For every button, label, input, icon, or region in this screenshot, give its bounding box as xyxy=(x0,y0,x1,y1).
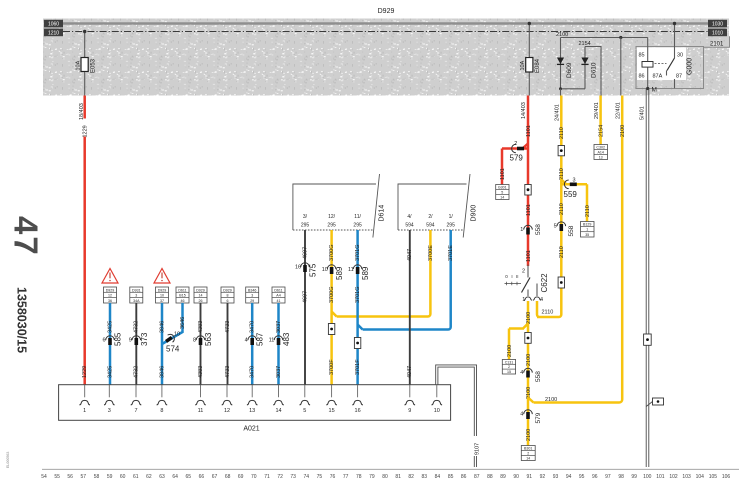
A021 pin 9 xyxy=(409,385,411,398)
svg-text:B15: B15 xyxy=(179,294,185,298)
svg-text:3700G: 3700G xyxy=(329,244,335,261)
svg-text:E053: E053 xyxy=(91,58,97,73)
svg-text:24/401: 24/401 xyxy=(555,104,561,121)
svg-text:A021: A021 xyxy=(243,426,259,433)
svg-text:574: 574 xyxy=(166,345,180,354)
svg-text:103: 103 xyxy=(682,474,691,480)
net tag 1010 right xyxy=(708,29,727,37)
diode D609 xyxy=(560,38,562,89)
svg-text:87: 87 xyxy=(474,474,480,480)
svg-text:II: II xyxy=(516,274,519,279)
wire 3037 xyxy=(277,303,280,385)
svg-text:10: 10 xyxy=(174,332,180,338)
svg-text:3701G: 3701G xyxy=(355,244,361,261)
svg-text:94: 94 xyxy=(566,474,572,480)
svg-text:76: 76 xyxy=(330,474,336,480)
svg-text:86: 86 xyxy=(639,74,645,80)
svg-text:2100: 2100 xyxy=(526,429,532,441)
svg-text:14: 14 xyxy=(500,196,504,200)
svg-text:4732: 4732 xyxy=(134,321,140,333)
svg-text:63: 63 xyxy=(159,474,165,480)
svg-text:15: 15 xyxy=(507,370,511,374)
terminal box G301/5/14 xyxy=(496,185,509,200)
svg-text:483: 483 xyxy=(282,332,291,346)
svg-text:99: 99 xyxy=(631,474,637,480)
svg-text:4047: 4047 xyxy=(407,366,413,378)
A021 pin 10 xyxy=(436,385,438,398)
net tag 1210 left xyxy=(44,29,63,37)
svg-text:2110: 2110 xyxy=(559,127,565,139)
svg-text:71: 71 xyxy=(264,474,270,480)
svg-text:8: 8 xyxy=(193,337,196,343)
svg-text:2101: 2101 xyxy=(710,42,724,48)
svg-text:4383: 4383 xyxy=(198,366,204,378)
svg-text:I: I xyxy=(511,274,512,279)
wire 14/403 net 1101 xyxy=(527,96,530,267)
A021 pin 14 xyxy=(278,385,280,398)
svg-text:87: 87 xyxy=(676,74,682,80)
svg-text:2110: 2110 xyxy=(559,168,565,180)
svg-text:60: 60 xyxy=(120,474,126,480)
svg-text:558: 558 xyxy=(535,371,542,382)
svg-text:62: 62 xyxy=(146,474,152,480)
branch 2100 from right xyxy=(528,398,622,403)
connector 579 pin 2 xyxy=(512,144,516,153)
wire 22/401 inside band xyxy=(620,38,622,96)
svg-text:558: 558 xyxy=(568,225,575,236)
svg-text:34A: 34A xyxy=(133,299,140,303)
svg-text:4697: 4697 xyxy=(302,247,308,259)
junction on bus 1030 xyxy=(528,22,531,25)
svg-text:558: 558 xyxy=(535,224,542,235)
terminal box B129/1/35 xyxy=(581,222,595,238)
svg-text:4732: 4732 xyxy=(134,366,140,378)
svg-text:14: 14 xyxy=(526,457,530,461)
svg-text:37: 37 xyxy=(160,299,164,303)
net 2154 line in band xyxy=(585,47,601,96)
source box D929/8/6 xyxy=(221,287,234,303)
fuse E053 xyxy=(81,58,88,72)
A021 pin 12 xyxy=(226,385,228,398)
svg-text:73: 73 xyxy=(290,474,296,480)
svg-text:3700E: 3700E xyxy=(428,245,434,261)
svg-text:9: 9 xyxy=(129,337,132,343)
svg-text:4: 4 xyxy=(520,370,523,376)
svg-text:15: 15 xyxy=(329,408,335,414)
svg-text:2100: 2100 xyxy=(507,345,513,357)
svg-text:66: 66 xyxy=(199,474,205,480)
connector 579 pin 4 (yellow) xyxy=(524,410,533,414)
svg-text:4/: 4/ xyxy=(407,214,412,220)
svg-text:64: 64 xyxy=(172,474,178,480)
terminal box C131/2/15 xyxy=(502,360,515,375)
svg-text:2100: 2100 xyxy=(620,125,626,137)
wire 3700G / 3700F xyxy=(332,230,431,385)
svg-text:91: 91 xyxy=(527,474,533,480)
svg-text:12: 12 xyxy=(224,408,230,414)
svg-text:563: 563 xyxy=(204,332,213,346)
svg-text:10A: 10A xyxy=(520,60,526,70)
svg-text:58: 58 xyxy=(94,474,100,480)
wire 4732 xyxy=(135,303,137,385)
svg-text:14: 14 xyxy=(199,294,203,298)
wire 4697 xyxy=(304,230,306,385)
net tag 1030 right xyxy=(708,20,727,28)
terminal box B301/2/14 xyxy=(521,446,535,461)
svg-text:10: 10 xyxy=(434,408,440,414)
A021 pin 15 xyxy=(331,385,333,398)
svg-text:3846: 3846 xyxy=(159,366,165,378)
svg-text:16: 16 xyxy=(355,408,361,414)
svg-text:11: 11 xyxy=(198,408,204,414)
source box D929/12/36 xyxy=(104,287,117,303)
svg-text:D929: D929 xyxy=(158,288,167,292)
screened wire 5/401 xyxy=(645,89,647,468)
branch to C131 xyxy=(509,324,528,360)
connector 558 pin 5 (yellow) xyxy=(557,222,566,226)
svg-text:2154: 2154 xyxy=(579,41,591,47)
svg-text:46: 46 xyxy=(181,299,185,303)
svg-text:85: 85 xyxy=(448,474,454,480)
svg-text:3/: 3/ xyxy=(303,214,308,220)
ground point M xyxy=(646,87,649,90)
bus bar 1010 (15-feed rail) xyxy=(63,31,708,33)
svg-text:84: 84 xyxy=(435,474,441,480)
fuse E053 feed wire xyxy=(84,32,86,96)
svg-text:559: 559 xyxy=(564,190,578,199)
svg-text:80: 80 xyxy=(382,474,388,480)
svg-text:18/403: 18/403 xyxy=(79,103,85,120)
svg-text:3700F: 3700F xyxy=(329,359,335,375)
svg-text:10A: 10A xyxy=(76,60,82,70)
svg-text:1101: 1101 xyxy=(526,204,532,216)
coordinate ruler xyxy=(42,468,739,470)
source box D611/B15/46 xyxy=(176,287,189,303)
bus bar 1030 (30-feed rail) xyxy=(63,22,708,24)
svg-text:6: 6 xyxy=(102,337,105,343)
diode D610 xyxy=(584,47,586,89)
splice on 3700F xyxy=(328,324,334,335)
svg-text:70: 70 xyxy=(251,474,257,480)
svg-text:594: 594 xyxy=(426,223,435,229)
svg-text:D931: D931 xyxy=(132,288,141,292)
svg-text:589: 589 xyxy=(335,266,344,280)
svg-text:13: 13 xyxy=(599,156,603,160)
svg-text:102: 102 xyxy=(669,474,678,480)
wire 4383 xyxy=(200,303,202,385)
svg-text:68: 68 xyxy=(225,474,231,480)
svg-text:1: 1 xyxy=(520,227,523,233)
svg-text:1229: 1229 xyxy=(82,125,88,137)
svg-text:3037: 3037 xyxy=(276,366,282,378)
svg-text:373: 373 xyxy=(140,332,149,346)
svg-text:97: 97 xyxy=(605,474,611,480)
junction on bus 1210 xyxy=(83,30,86,33)
svg-text:585: 585 xyxy=(114,332,123,346)
svg-text:2110: 2110 xyxy=(559,203,565,215)
svg-text:9: 9 xyxy=(408,408,411,414)
svg-text:3: 3 xyxy=(572,178,575,184)
net tag 1060 left xyxy=(44,20,63,28)
splice on 5/401 xyxy=(644,334,652,345)
relay pin 87A stub xyxy=(666,71,668,76)
wire 22/401 net 2100 xyxy=(621,96,624,400)
source box D929/10/37 xyxy=(156,287,169,303)
wire 4047 xyxy=(409,230,411,385)
svg-text:295: 295 xyxy=(327,223,336,229)
svg-text:54: 54 xyxy=(41,474,47,480)
svg-text:2: 2 xyxy=(514,141,517,147)
svg-text:89: 89 xyxy=(500,474,506,480)
svg-text:11/: 11/ xyxy=(354,214,361,220)
svg-text:77: 77 xyxy=(343,474,349,480)
source box D611/A4/41 xyxy=(272,287,285,303)
svg-text:A4: A4 xyxy=(276,294,280,298)
warning triangle over 3846 xyxy=(154,269,170,284)
svg-text:12/: 12/ xyxy=(328,214,336,220)
svg-text:75: 75 xyxy=(317,474,323,480)
svg-text:3700G: 3700G xyxy=(329,286,335,303)
connector 563 pin 8 xyxy=(196,336,205,340)
svg-text:30: 30 xyxy=(677,53,683,59)
svg-text:9107: 9107 xyxy=(474,443,480,455)
svg-text:A14: A14 xyxy=(597,151,603,155)
svg-text:56: 56 xyxy=(67,474,73,480)
svg-text:B129: B129 xyxy=(583,223,591,227)
svg-text:105: 105 xyxy=(709,474,718,480)
svg-text:3: 3 xyxy=(108,408,111,414)
svg-text:2154: 2154 xyxy=(598,125,604,137)
svg-text:C302: C302 xyxy=(596,146,605,150)
svg-text:79: 79 xyxy=(369,474,375,480)
switch C622 xyxy=(505,265,549,304)
svg-text:4733: 4733 xyxy=(225,366,231,378)
svg-text:3470: 3470 xyxy=(250,366,256,378)
A021 pin 8 xyxy=(161,385,163,398)
svg-text:3425: 3425 xyxy=(107,321,113,333)
svg-text:4733: 4733 xyxy=(225,321,231,333)
screened wire 9107 xyxy=(436,365,477,467)
svg-text:3846: 3846 xyxy=(159,321,165,333)
relay switch blade xyxy=(667,58,675,71)
A021 pin 3 xyxy=(108,385,110,398)
svg-text:3: 3 xyxy=(251,294,253,298)
svg-text:3037: 3037 xyxy=(276,321,282,333)
svg-text:98: 98 xyxy=(618,474,624,480)
svg-text:5/401: 5/401 xyxy=(640,106,646,120)
svg-text:92: 92 xyxy=(540,474,546,480)
svg-text:6: 6 xyxy=(227,299,229,303)
connector 585 pin 6 xyxy=(106,336,115,340)
svg-text:8: 8 xyxy=(160,408,163,414)
svg-text:3701E: 3701E xyxy=(448,245,454,261)
branch to 559 xyxy=(561,180,587,222)
wire 18/403 net 1229 xyxy=(83,96,86,385)
connector 483 pin 11 xyxy=(274,336,283,340)
svg-text:579: 579 xyxy=(535,412,542,423)
svg-text:EL000563: EL000563 xyxy=(6,452,10,468)
relay G000 outline xyxy=(636,47,704,89)
source box D929/14/26 xyxy=(194,287,207,303)
svg-text:5: 5 xyxy=(303,408,306,414)
svg-text:589: 589 xyxy=(361,266,370,280)
svg-text:74: 74 xyxy=(304,474,310,480)
svg-text:3701G: 3701G xyxy=(355,286,361,303)
svg-text:594: 594 xyxy=(405,223,414,229)
A021 pin 5 xyxy=(304,385,306,398)
svg-text:101: 101 xyxy=(656,474,665,480)
svg-text:59: 59 xyxy=(107,474,113,480)
svg-text:95: 95 xyxy=(579,474,585,480)
wire 3646 merging at 574 xyxy=(162,303,183,344)
svg-text:D609: D609 xyxy=(566,62,573,78)
svg-text:16: 16 xyxy=(295,265,301,271)
svg-text:2110: 2110 xyxy=(559,246,565,258)
svg-text:106: 106 xyxy=(722,474,731,480)
svg-text:55: 55 xyxy=(54,474,60,480)
svg-text:8: 8 xyxy=(227,294,229,298)
svg-text:35: 35 xyxy=(585,233,589,237)
svg-text:13: 13 xyxy=(249,408,255,414)
source box B346/3/29 xyxy=(246,287,259,303)
splice on 1101 xyxy=(525,185,531,196)
svg-text:1010: 1010 xyxy=(712,30,723,36)
svg-text:579: 579 xyxy=(510,154,524,163)
svg-text:57: 57 xyxy=(81,474,87,480)
svg-text:2/: 2/ xyxy=(428,214,433,220)
wire 24/401 net 2110 xyxy=(537,96,561,318)
svg-text:D929: D929 xyxy=(378,8,395,15)
svg-text:2: 2 xyxy=(508,365,510,369)
svg-text:85: 85 xyxy=(639,53,645,59)
svg-text:14: 14 xyxy=(275,408,281,414)
svg-text:3701F: 3701F xyxy=(355,359,361,375)
svg-text:81: 81 xyxy=(395,474,401,480)
A021 pin 11 xyxy=(200,385,202,398)
svg-text:587: 587 xyxy=(256,332,265,346)
wire 3701G / 3701F xyxy=(358,230,451,385)
svg-text:12: 12 xyxy=(108,294,112,298)
svg-text:2: 2 xyxy=(527,452,529,456)
svg-text:D929: D929 xyxy=(106,288,115,292)
wire 3846 xyxy=(161,303,164,385)
svg-text:D929: D929 xyxy=(223,288,232,292)
svg-text:69: 69 xyxy=(238,474,244,480)
shield tab on 5/401 xyxy=(646,402,652,407)
A021 pin 16 xyxy=(357,385,359,398)
svg-text:G301: G301 xyxy=(498,186,507,190)
svg-text:4383: 4383 xyxy=(198,321,204,333)
fuse E084 feed wire xyxy=(528,24,530,96)
svg-text:22/401: 22/401 xyxy=(616,102,622,119)
wire 29/401 net 2154 xyxy=(599,96,602,145)
svg-text:3425: 3425 xyxy=(107,366,113,378)
svg-text:78: 78 xyxy=(356,474,362,480)
splice on 2110 xyxy=(558,146,564,156)
svg-text:D611: D611 xyxy=(178,288,186,292)
splice 2 on 2110 xyxy=(558,277,564,288)
svg-text:D929: D929 xyxy=(196,288,205,292)
svg-text:83: 83 xyxy=(422,474,428,480)
relay pin 30 wire to bus xyxy=(674,24,676,59)
A021 pin 13 xyxy=(251,385,253,398)
svg-text:41: 41 xyxy=(277,299,281,303)
svg-text:10: 10 xyxy=(160,294,164,298)
svg-text:C131: C131 xyxy=(505,360,514,364)
fuse E084 xyxy=(526,58,533,73)
svg-text:86: 86 xyxy=(461,474,467,480)
terminal box C302/A14/13 xyxy=(594,145,608,160)
svg-text:1030: 1030 xyxy=(712,22,723,28)
svg-text:4: 4 xyxy=(520,411,523,417)
net 2101 link to bus xyxy=(675,36,730,88)
svg-text:4697: 4697 xyxy=(302,291,308,303)
svg-text:B301: B301 xyxy=(524,447,532,451)
svg-text:4: 4 xyxy=(540,297,543,303)
svg-text:29/401: 29/401 xyxy=(594,102,600,119)
svg-text:3646: 3646 xyxy=(180,317,186,329)
svg-text:2100: 2100 xyxy=(545,397,557,403)
svg-text:2110: 2110 xyxy=(542,310,554,316)
diode common cathode join xyxy=(561,88,586,90)
relay coil xyxy=(642,62,653,68)
svg-text:2110: 2110 xyxy=(585,205,591,217)
svg-text:1/: 1/ xyxy=(449,214,454,220)
svg-text:295: 295 xyxy=(301,223,310,229)
A021 pin 7 xyxy=(135,385,137,398)
svg-text:M: M xyxy=(652,87,657,94)
svg-text:3470: 3470 xyxy=(250,321,256,333)
svg-text:D614: D614 xyxy=(379,205,386,222)
connector 558 pin 4 (yellow) xyxy=(524,368,533,372)
svg-text:D900: D900 xyxy=(471,205,478,222)
svg-text:1101: 1101 xyxy=(526,250,532,262)
svg-text:5: 5 xyxy=(554,223,557,229)
svg-text:1101: 1101 xyxy=(500,168,506,180)
branch chamfer to 579 xyxy=(502,144,528,149)
power distribution band xyxy=(43,19,729,96)
svg-text:7: 7 xyxy=(134,408,137,414)
svg-text:1229: 1229 xyxy=(82,366,88,378)
svg-text:1101: 1101 xyxy=(526,125,532,137)
svg-text:29: 29 xyxy=(250,299,254,303)
svg-text:67: 67 xyxy=(212,474,218,480)
svg-text:295: 295 xyxy=(447,223,456,229)
svg-text:G000: G000 xyxy=(687,58,694,75)
svg-text:1060: 1060 xyxy=(48,22,59,28)
svg-text:295: 295 xyxy=(353,223,362,229)
control unit D900 xyxy=(398,174,478,238)
wire 3470 xyxy=(251,303,254,385)
svg-text:11: 11 xyxy=(348,267,354,273)
net 2100 line in band xyxy=(561,37,648,39)
svg-text:B346: B346 xyxy=(248,288,256,292)
svg-text:5: 5 xyxy=(501,191,503,195)
svg-text:72: 72 xyxy=(277,474,283,480)
connector A021 xyxy=(59,385,451,421)
wire 3425 xyxy=(109,303,112,385)
svg-text:47: 47 xyxy=(8,216,45,257)
svg-text:10: 10 xyxy=(322,267,328,273)
svg-text:C622: C622 xyxy=(540,273,549,293)
svg-text:96: 96 xyxy=(592,474,598,480)
svg-text:575: 575 xyxy=(309,263,318,277)
connector 558 pin 1 (red) xyxy=(524,225,533,229)
control unit D614 xyxy=(293,174,386,238)
svg-text:1: 1 xyxy=(586,228,588,232)
svg-text:1210: 1210 xyxy=(48,30,59,36)
svg-text:104: 104 xyxy=(696,474,705,480)
